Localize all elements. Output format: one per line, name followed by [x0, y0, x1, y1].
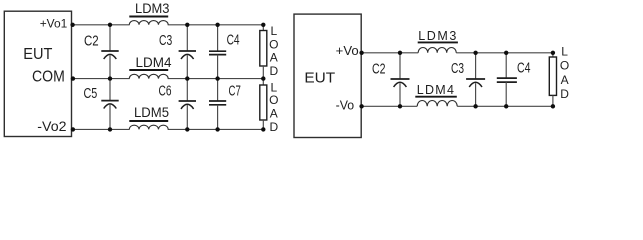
label -Vo2 [37, 119, 66, 134]
node C7 bottom [215, 127, 219, 131]
resistor LOAD right [549, 44, 569, 106]
svg-text:+Vo1: +Vo1 [40, 17, 68, 31]
svg-text:L: L [270, 24, 277, 38]
svg-text:LDM4: LDM4 [136, 55, 172, 70]
svg-text:A: A [270, 51, 278, 65]
node -Vo terminal [359, 104, 363, 108]
wire top rail right (LDM3 to LOAD) [168, 24, 264, 26]
wire mid rail left (box to LDM4) [72, 78, 130, 80]
wire right top rail right segment [456, 52, 553, 54]
inductor LDM3 right [418, 29, 458, 53]
inductor LDM4 [129, 55, 172, 79]
wire top rail left (box to LDM3) [72, 24, 130, 26]
inductor LDM3 [129, 1, 169, 25]
node -Vo2 terminal [71, 127, 75, 131]
node +Vo1 terminal [70, 23, 74, 27]
node C2 top [108, 23, 112, 27]
capacitor C4 [209, 25, 240, 79]
node C4 top [215, 23, 219, 27]
wire bottom rail right (LDM5 to LOAD) [168, 128, 264, 130]
svg-text:LDM3: LDM3 [418, 29, 456, 43]
capacitor C6 [159, 79, 197, 130]
svg-text:-Vo2: -Vo2 [37, 119, 66, 134]
svg-text:LDM3: LDM3 [135, 1, 170, 16]
capacitor C3 right [451, 53, 485, 107]
svg-text:COM: COM [32, 69, 65, 86]
svg-text:L: L [270, 80, 277, 94]
svg-text:C2: C2 [372, 61, 386, 77]
svg-text:C5: C5 [84, 86, 98, 102]
capacitor C7 [209, 79, 241, 130]
svg-text:-Vo: -Vo [336, 98, 355, 113]
wire mid rail right (LDM4 to LOAD) [168, 78, 264, 80]
resistor LOAD1 [260, 24, 279, 79]
svg-text:C4: C4 [227, 32, 240, 48]
capacitor C2 right [372, 53, 410, 107]
node C2 right bottom [398, 104, 402, 108]
svg-text:L: L [561, 44, 568, 58]
svg-text:D: D [560, 87, 569, 101]
label -Vo [336, 98, 355, 113]
node LOAD right bottom [551, 104, 555, 108]
wire bottom rail left (box to LDM5) [72, 128, 130, 130]
inductor LDM4 right [415, 83, 457, 106]
label +Vo [336, 43, 359, 58]
node C4 right bottom [504, 104, 508, 108]
node +Vo terminal [359, 51, 363, 55]
svg-text:D: D [269, 120, 278, 134]
svg-text:O: O [269, 93, 278, 107]
svg-text:O: O [269, 37, 278, 51]
EUT box left [4, 11, 71, 136]
svg-text:EUT: EUT [23, 46, 52, 63]
capacitor C5 [84, 79, 119, 130]
svg-text:C4: C4 [517, 61, 531, 77]
node C5 bottom [108, 127, 112, 131]
svg-text:D: D [269, 64, 278, 78]
node C3 right bottom [473, 104, 477, 108]
svg-text:EUT: EUT [304, 70, 335, 87]
node C4 right top [504, 51, 508, 55]
node C3 top [185, 23, 189, 27]
svg-text:O: O [560, 58, 569, 72]
svg-text:A: A [270, 107, 278, 121]
node C2-C5 mid [108, 76, 112, 80]
svg-text:+Vo: +Vo [336, 43, 359, 58]
node C3 right top [473, 51, 477, 55]
svg-text:LDM4: LDM4 [417, 83, 454, 97]
node COM terminal [71, 76, 75, 80]
svg-text:C6: C6 [159, 83, 172, 99]
svg-text:LDM5: LDM5 [134, 105, 169, 120]
label +Vo1 [40, 17, 68, 31]
inductor LDM5 [129, 105, 169, 130]
node LOAD1-LOAD2 mid [261, 76, 265, 80]
label EUT (left) [23, 46, 52, 63]
capacitor C3 [159, 25, 196, 79]
label EUT (right) [304, 70, 335, 87]
svg-text:C2: C2 [84, 33, 99, 49]
capacitor C2 [84, 25, 119, 79]
svg-text:A: A [561, 73, 569, 87]
wire right top rail left segment [361, 52, 418, 54]
node LOAD1 top [261, 23, 265, 27]
wire right bottom rail right segment [457, 105, 553, 107]
svg-text:C3: C3 [159, 33, 172, 49]
node C2 right top [398, 51, 402, 55]
EUT box right [294, 14, 361, 137]
svg-text:C3: C3 [451, 61, 464, 77]
capacitor C4 right [497, 53, 531, 107]
label COM [32, 69, 65, 86]
node LOAD2 bottom [261, 127, 265, 131]
node C4-C7 mid [215, 76, 219, 80]
svg-text:C7: C7 [229, 84, 241, 100]
node C3-C6 mid [185, 76, 189, 80]
node C6 bottom [185, 127, 189, 131]
node LOAD right top [551, 51, 555, 55]
resistor LOAD2 [260, 79, 279, 134]
wire right bottom rail left segment [361, 105, 417, 107]
